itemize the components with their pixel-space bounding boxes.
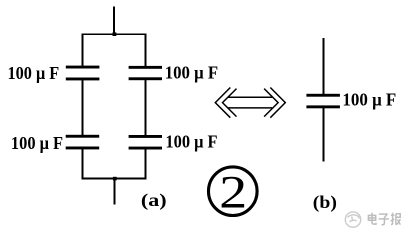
capacitor C5 plates [306, 94, 340, 109]
node top junction [113, 32, 117, 36]
svg-text:100 μ F: 100 μ F [165, 131, 217, 151]
capacitor C2 top-right plates [129, 66, 162, 80]
wire top feed stub [113, 6, 115, 34]
label (b) [313, 192, 337, 213]
value label C5 100uF [342, 90, 396, 110]
capacitor C4 bottom-right plates [129, 135, 162, 150]
figure number circle [209, 167, 258, 216]
wire right circuit upper lead [323, 38, 325, 94]
figure number 2 [219, 167, 247, 218]
node bottom junction [113, 177, 117, 181]
watermark text dianzibao 报 [391, 213, 401, 225]
value label C3 100uF [11, 133, 63, 153]
svg-text:100 μ F: 100 μ F [165, 62, 218, 82]
svg-text:2: 2 [219, 167, 247, 218]
capacitor C1 top-left plates [66, 66, 100, 81]
svg-text:(a): (a) [141, 190, 167, 211]
wire left branch middle [82, 80, 84, 135]
value label C4 100uF [165, 131, 217, 151]
value label C1 100uF [8, 63, 60, 83]
wire bottom rail [82, 178, 147, 180]
wire left branch upper [82, 33, 84, 66]
capacitor C3 bottom-left plates [66, 135, 100, 150]
watermark logo [345, 212, 360, 227]
wire right branch lower [145, 149, 147, 179]
svg-text:100 μ F: 100 μ F [11, 133, 63, 153]
svg-text:100 μ F: 100 μ F [8, 63, 60, 83]
wire top rail [82, 33, 147, 35]
svg-text:100 μ F: 100 μ F [342, 90, 396, 110]
label (a) [141, 190, 167, 211]
wire left branch lower [82, 149, 84, 179]
value label C2 100uF [165, 62, 218, 82]
wire right circuit lower lead [323, 108, 325, 162]
equivalence double arrow [215, 88, 285, 118]
svg-text:(b): (b) [313, 192, 337, 213]
watermark text dianzibao 子 [379, 214, 389, 225]
wire right branch upper [145, 33, 147, 66]
wire right branch middle [145, 80, 147, 135]
watermark text dianzibao 电 [368, 213, 376, 225]
wire bottom stub [114, 178, 116, 205]
